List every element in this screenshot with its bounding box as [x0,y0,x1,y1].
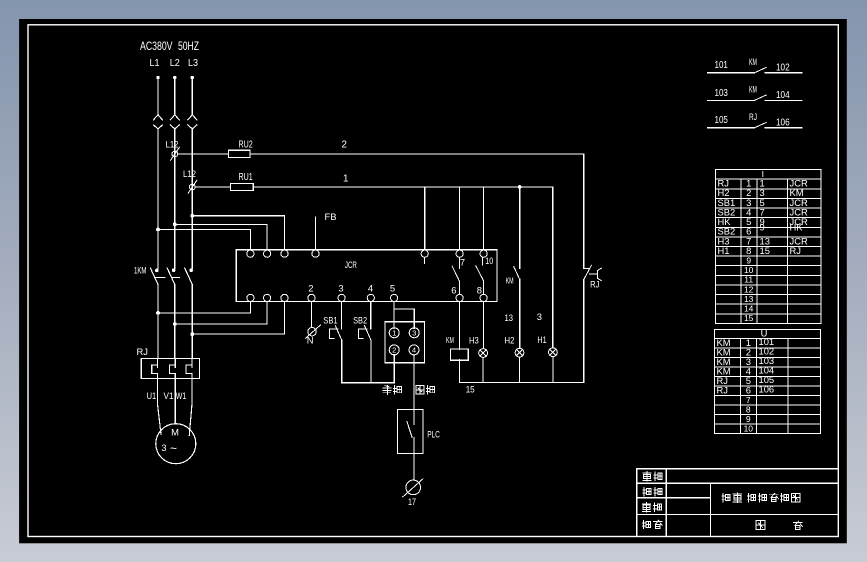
svg-text:1KM: 1KM [134,264,147,275]
svg-text:U1: U1 [147,390,157,401]
svg-text:H1: H1 [718,245,730,256]
svg-text:H3: H3 [469,335,479,346]
svg-text:3: 3 [412,329,416,338]
svg-text:PLC: PLC [427,429,440,440]
svg-text:17: 17 [408,496,416,507]
svg-text:50HZ: 50HZ [178,39,199,53]
svg-text:9: 9 [746,414,751,424]
svg-text:4: 4 [368,282,373,293]
svg-text:KM: KM [506,276,514,285]
svg-text:104: 104 [776,90,790,101]
svg-text:HK: HK [790,222,804,233]
svg-text:13: 13 [744,294,754,304]
svg-text:15: 15 [760,245,770,256]
svg-text:KM: KM [446,336,454,345]
svg-text:M: M [171,427,179,438]
svg-text:KM: KM [749,57,757,67]
svg-text:RJ: RJ [137,346,148,357]
svg-text:10: 10 [744,265,754,275]
svg-text:JCR: JCR [345,259,357,270]
svg-text:SB1: SB1 [323,315,337,326]
svg-text:15: 15 [744,313,754,323]
svg-text:1: 1 [392,329,396,338]
svg-text:8: 8 [746,404,751,414]
svg-text:V1: V1 [164,390,174,401]
svg-text:103: 103 [715,88,729,99]
svg-text:RJ: RJ [717,384,728,395]
svg-text:13: 13 [505,312,514,323]
svg-text:RU2: RU2 [239,139,253,150]
svg-text:4: 4 [412,346,416,355]
svg-text:W1: W1 [176,390,187,401]
svg-text:105: 105 [715,115,729,126]
svg-text:2: 2 [308,282,313,293]
svg-text:H2: H2 [505,335,515,346]
svg-text:7: 7 [746,395,751,405]
svg-text:8: 8 [477,284,482,295]
svg-text:12: 12 [744,284,754,294]
svg-text:H1: H1 [537,334,546,345]
svg-text:RJ: RJ [790,245,801,256]
svg-text:L3: L3 [188,58,198,69]
svg-text:8: 8 [746,245,751,256]
svg-text:101: 101 [715,60,729,71]
svg-text:6: 6 [746,384,751,395]
svg-text:106: 106 [776,117,790,128]
svg-text:3: 3 [537,311,542,322]
svg-text:L2: L2 [170,58,180,69]
svg-text:11: 11 [744,275,753,285]
svg-text:RJ: RJ [590,279,599,290]
svg-text:14: 14 [744,304,754,314]
svg-text:1: 1 [343,174,348,185]
svg-text:10: 10 [485,255,493,266]
svg-text:102: 102 [776,62,790,73]
svg-text:3: 3 [162,443,167,453]
svg-text:5: 5 [390,282,395,293]
svg-text:~: ~ [170,442,177,456]
svg-text:106: 106 [759,383,775,394]
svg-text:6: 6 [451,284,456,295]
svg-text:10: 10 [744,423,754,433]
svg-text:SB2: SB2 [353,315,367,326]
svg-text:L1: L1 [150,58,160,69]
svg-text:15: 15 [466,383,475,394]
svg-text:KM: KM [749,84,757,94]
svg-text:7: 7 [460,256,465,267]
svg-text:L12: L12 [166,138,179,149]
svg-text:AC380V: AC380V [140,39,173,53]
svg-text:N: N [307,334,314,345]
svg-text:FB: FB [325,211,337,222]
svg-text:2: 2 [392,346,396,355]
svg-text:RJ: RJ [749,112,757,122]
svg-text:9: 9 [760,222,765,233]
svg-text:L12: L12 [183,168,196,179]
svg-text:2: 2 [342,140,347,151]
svg-text:9: 9 [746,256,751,266]
svg-text:3: 3 [338,282,343,293]
svg-text:RU1: RU1 [239,172,253,183]
